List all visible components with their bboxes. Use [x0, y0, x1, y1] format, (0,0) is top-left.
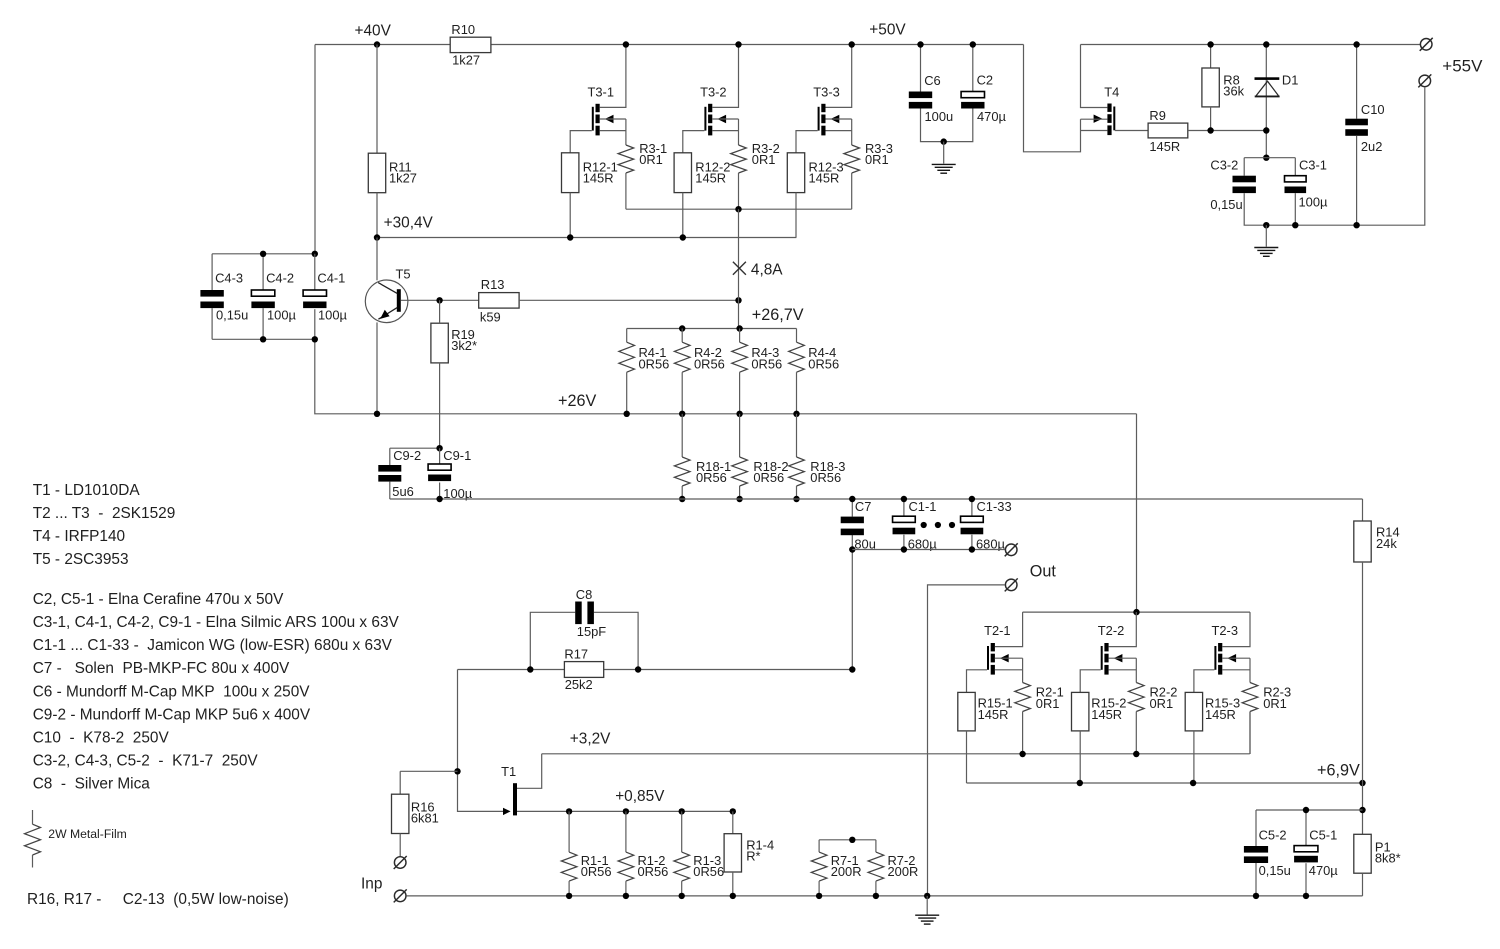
- svg-text:+0,85V: +0,85V: [615, 788, 665, 805]
- wire R18-1 bottom: [681, 486, 683, 499]
- wire T2 drain rail: [1023, 611, 1250, 613]
- node R15-2 bottom: [1077, 780, 1083, 786]
- node D1 top: [1263, 41, 1269, 47]
- legend text: C2, C5-1 - Elna Cerafine 4: [33, 591, 284, 608]
- resistor R15-2: [1072, 692, 1089, 731]
- wire T4 gate to R9: [1115, 130, 1148, 132]
- node C1-33 top: [969, 496, 975, 502]
- wire T1 source rail: [517, 810, 733, 812]
- node output ground junction: [924, 893, 930, 899]
- label C4-2 value 100µ: [267, 308, 297, 323]
- resistor R1-3: [674, 852, 690, 881]
- label R4-4 0R56: [808, 345, 839, 371]
- voltage label +40V: [355, 22, 392, 39]
- svg-text:R10: R10: [451, 22, 475, 37]
- node R17 rail junction: [849, 666, 855, 672]
- label C2: [977, 73, 993, 88]
- node T3-1 drain on rail: [623, 41, 629, 47]
- resistor R15-1: [958, 692, 975, 731]
- svg-text:5u6: 5u6: [392, 484, 414, 499]
- wire C3 top rail: [1244, 158, 1295, 176]
- svg-text:100µ: 100µ: [318, 308, 348, 323]
- node R4-4 bottom on +26V rail: [793, 411, 799, 417]
- label R2-3 0R1: [1263, 685, 1291, 711]
- voltage label +26,7V: [752, 306, 804, 324]
- svg-text:200R: 200R: [888, 864, 919, 879]
- label C4-1 value 100µ: [318, 308, 348, 323]
- label R4-2 0R56: [694, 345, 725, 371]
- svg-text:+55V: +55V: [1442, 56, 1483, 75]
- wire R18-3 bottom: [796, 486, 798, 499]
- terminal input upper: [394, 856, 407, 869]
- resistor R17: [564, 662, 603, 678]
- capacitor C2: [961, 92, 984, 109]
- wire R4-2 bottom: [681, 372, 683, 414]
- svg-text:C9-2 - Mundorff M-Cap MKP 5u6: C9-2 - Mundorff M-Cap MKP 5u6 x 400V: [33, 707, 311, 724]
- svg-text:Inp: Inp: [361, 875, 382, 892]
- wire R16 bottom: [399, 834, 401, 857]
- transistor T4: [1094, 104, 1116, 136]
- svg-text:C2: C2: [977, 73, 993, 88]
- wire R2-2 bottom: [1135, 712, 1137, 755]
- label T1: [501, 764, 516, 779]
- wire R18-3 top: [796, 414, 798, 457]
- wire T2-2 source stubs: [1109, 658, 1137, 682]
- label T3-1: [588, 84, 615, 99]
- wire T3 source rail: [626, 208, 852, 210]
- svg-text:C5-1: C5-1: [1309, 828, 1337, 843]
- transistor T3-3: [818, 104, 840, 136]
- svg-text:0R56: 0R56: [753, 470, 784, 485]
- svg-text:C7: C7: [855, 499, 871, 514]
- legend text: R16, R17 note: [27, 891, 289, 908]
- label C3-2 value 0,15u: [1210, 197, 1242, 212]
- wire R4-3 bottom: [739, 372, 741, 414]
- svg-text:T3-2: T3-2: [700, 84, 727, 99]
- wire long mid rail: [390, 498, 1363, 500]
- svg-text:0R56: 0R56: [696, 470, 727, 485]
- svg-text:+26,7V: +26,7V: [752, 306, 804, 324]
- node C5/P1 top junction: [1359, 807, 1365, 813]
- legend text: T4 - IRFP140: [33, 528, 125, 545]
- svg-text:T1: T1: [501, 764, 516, 779]
- label C3-2: [1210, 157, 1238, 172]
- wire T2-2 gate: [1080, 670, 1101, 693]
- label R7-1 200R: [831, 853, 862, 879]
- capacitor C7: [841, 517, 864, 536]
- label R15-1 145R: [978, 696, 1013, 722]
- wire P1 bottom: [1362, 873, 1364, 896]
- svg-text:C1-1 ... C1-33 - Jamicon WG (: C1-1 ... C1-33 - Jamicon WG (low-ESR) 68…: [33, 637, 393, 654]
- wire R18-2 bottom: [739, 486, 741, 499]
- label R4-1 0R56: [639, 345, 670, 371]
- wire T4 drain: [1081, 45, 1108, 108]
- label R13 value k59: [480, 310, 501, 325]
- wire R3-1 bottom: [625, 173, 627, 209]
- svg-text:36k: 36k: [1223, 84, 1244, 99]
- wire +50V feed step: [1024, 45, 1081, 152]
- node R1-1 bottom: [566, 893, 572, 899]
- wire R12-2 bottom: [682, 193, 684, 238]
- wire left vertical +40V branch: [314, 45, 316, 340]
- wire R13 to 4,8A vertical: [519, 299, 738, 301]
- svg-text:6k81: 6k81: [411, 811, 439, 826]
- node R8 top: [1207, 41, 1213, 47]
- svg-text:0R1: 0R1: [1263, 696, 1287, 711]
- wire R4-3 top: [739, 329, 741, 343]
- wire T3-2 source stubs: [712, 119, 738, 145]
- node R4-3 bottom on +26V rail: [736, 411, 742, 417]
- node C9-1 top junction: [436, 445, 442, 451]
- label R10 value 1k27: [452, 53, 480, 68]
- wire R1-3 bottom: [681, 881, 683, 896]
- label C1-1 value 680µ: [908, 536, 938, 551]
- wire R7 top bracket: [819, 840, 876, 852]
- node T3-2 source rail: [735, 206, 741, 212]
- label R1-4 R*: [746, 838, 774, 864]
- label C7: [855, 499, 871, 514]
- wire R7-1 bottom: [818, 881, 820, 896]
- capacitor C4-1: [303, 290, 326, 308]
- svg-text:8k8*: 8k8*: [1375, 851, 1401, 866]
- svg-text:C7 - Solen PB-MKP-FC 80u x: C7 - Solen PB-MKP-FC 80u x 400V: [33, 660, 290, 677]
- node R13 junction: [735, 297, 741, 303]
- svg-text:145R: 145R: [1149, 139, 1180, 154]
- label R15-2 145R: [1091, 696, 1126, 722]
- capacitor C4-2: [251, 290, 274, 308]
- label C4-1: [317, 271, 345, 286]
- svg-text:0R56: 0R56: [638, 864, 669, 879]
- wire R3-3 bottom: [851, 173, 853, 209]
- svg-text:+3,2V: +3,2V: [570, 730, 611, 747]
- node C2 top: [970, 41, 976, 47]
- node R19 top junction: [436, 297, 442, 303]
- label R7-2 200R: [888, 853, 919, 879]
- label C9-1: [443, 448, 471, 463]
- svg-text:R16, R17 - C2-13 (0,5W lo: R16, R17 - C2-13 (0,5W low-noise): [27, 891, 289, 908]
- svg-text:T2-1: T2-1: [984, 623, 1011, 638]
- svg-text:C1-33: C1-33: [977, 499, 1012, 514]
- label R19 3k2*: [451, 327, 477, 353]
- label C9-1 value 100µ: [443, 486, 473, 501]
- svg-text:470µ: 470µ: [977, 109, 1007, 124]
- capacitor C6: [909, 92, 932, 109]
- svg-text:2u2: 2u2: [1361, 139, 1383, 154]
- label T2-2: [1098, 623, 1125, 638]
- wire R11 bottom: [376, 193, 378, 238]
- node T5 emitter on +26V rail: [374, 411, 380, 417]
- capacitor C5-2: [1244, 846, 1268, 863]
- svg-text:D1: D1: [1282, 72, 1298, 87]
- ground below input rail: [915, 896, 939, 924]
- wire T2-3 drain: [1222, 612, 1250, 647]
- resistor R15-3: [1185, 692, 1202, 731]
- wire T5 emitter: [376, 322, 378, 413]
- transistor T2-1: [987, 643, 1009, 675]
- svg-text:0R1: 0R1: [639, 152, 663, 167]
- node C7 top: [849, 496, 855, 502]
- label C1-1: [909, 499, 937, 514]
- resistor R4-4: [789, 342, 805, 372]
- wire R7-2 bottom: [875, 881, 877, 896]
- wire R4-1 bottom: [626, 372, 628, 414]
- svg-text:0R56: 0R56: [581, 864, 612, 879]
- resistor R12-1: [562, 153, 579, 193]
- svg-text:T2 ... T3 - 2SK1529: T2 ... T3 - 2SK1529: [33, 505, 176, 522]
- node C8 right: [635, 666, 641, 672]
- label C9-2: [393, 448, 421, 463]
- wire R3-2 bottom: [738, 173, 740, 209]
- label R10: [451, 22, 475, 37]
- label T3-3: [813, 84, 840, 99]
- label R15-3 145R: [1205, 696, 1240, 722]
- label C9-2 value 5u6: [392, 484, 414, 499]
- svg-text:C9-1: C9-1: [443, 448, 471, 463]
- node C1-1 top: [901, 496, 907, 502]
- svg-text:2W Metal-Film: 2W Metal-Film: [48, 827, 127, 841]
- resistor R2-3: [1242, 683, 1258, 712]
- wire input ground rail: [406, 895, 1362, 897]
- wire R2-3 bottom: [1249, 712, 1251, 755]
- svg-text:1k27: 1k27: [452, 53, 480, 68]
- wire C3 bottom rail: [1244, 87, 1425, 225]
- wire C9 top bracket: [390, 448, 440, 465]
- node C5-1 top: [1303, 807, 1309, 813]
- resistor R1-4: [724, 834, 741, 872]
- svg-text:R9: R9: [1149, 108, 1165, 123]
- svg-text:145R: 145R: [695, 171, 726, 186]
- resistor R7-2: [868, 852, 884, 881]
- terminal +55V upper: [1420, 38, 1433, 51]
- resistor R14: [1354, 521, 1371, 562]
- wire Out return: [928, 585, 1005, 896]
- voltage label +3,2V: [570, 730, 611, 747]
- label T5: [396, 266, 411, 281]
- node D1 anode junction: [1263, 127, 1269, 133]
- svg-text:T1 - LD1010DA: T1 - LD1010DA: [33, 482, 141, 499]
- svg-text:145R: 145R: [583, 171, 614, 186]
- wire R19 top: [439, 300, 441, 323]
- node R1-1 top: [566, 808, 572, 814]
- label R2-2 0R1: [1150, 685, 1178, 711]
- label R12-2 145R: [695, 159, 730, 185]
- svg-text:C3-2: C3-2: [1210, 157, 1238, 172]
- label C5-2 value 0,15u: [1259, 863, 1291, 878]
- label P1 8k8*: [1375, 840, 1401, 866]
- svg-text:145R: 145R: [1091, 707, 1122, 722]
- node C9-1 bottom junction: [436, 496, 442, 502]
- capacitor C9-1: [428, 464, 451, 481]
- svg-text:R*: R*: [746, 849, 760, 864]
- label R13: [481, 277, 505, 292]
- svg-text:+40V: +40V: [355, 22, 392, 39]
- wire R15-2 bottom: [1079, 731, 1081, 783]
- node C4-1 bottom: [312, 336, 318, 342]
- resistor R18-2: [732, 457, 748, 486]
- wire C6 top: [920, 45, 922, 92]
- svg-text:+6,9V: +6,9V: [1317, 761, 1360, 779]
- resistor R12-3: [787, 153, 804, 193]
- terminal Out plus: [1005, 543, 1018, 556]
- resistor R7-1: [811, 852, 827, 881]
- node R1-2 bottom: [623, 893, 629, 899]
- node C5-2 bottom: [1253, 893, 1259, 899]
- wire T3-3 gate: [796, 131, 818, 153]
- node T2 drain rail junction: [1133, 609, 1139, 615]
- ground below C6/C2: [932, 142, 956, 174]
- svg-text:C6 - Mundorff M-Cap MKP 100u: C6 - Mundorff M-Cap MKP 100u x 250V: [33, 684, 311, 701]
- wire T2-3 source stubs: [1222, 658, 1250, 682]
- wire C7 vertical: [851, 499, 853, 670]
- svg-text:100µ: 100µ: [267, 308, 297, 323]
- wire R1-4 bottom: [732, 872, 734, 896]
- svg-text:3k2*: 3k2*: [451, 338, 477, 353]
- svg-text:0R56: 0R56: [810, 470, 841, 485]
- label R18-1 0R56: [696, 459, 731, 485]
- svg-text:470µ: 470µ: [1309, 863, 1339, 878]
- legend text: T1 - LD1010DA: [33, 482, 141, 499]
- node R15-3 bottom: [1190, 780, 1196, 786]
- svg-text:C9-2: C9-2: [393, 448, 421, 463]
- svg-text:0R1: 0R1: [752, 152, 776, 167]
- label R18-2 0R56: [753, 459, 788, 485]
- legend text: T2 ... T3 - 2SK1529: [33, 505, 176, 522]
- wire R15-3 bottom: [1193, 731, 1195, 783]
- label C1-33 value 680µ: [976, 536, 1006, 551]
- node C1-1 bottom: [901, 546, 907, 552]
- label T4: [1104, 85, 1119, 100]
- voltage label +55V: [1442, 56, 1483, 75]
- wire R12-1 bottom: [569, 193, 571, 238]
- svg-text:R13: R13: [481, 277, 505, 292]
- wire R8 bottom: [1210, 107, 1212, 131]
- wire T3-3 source stubs: [826, 119, 852, 145]
- resistor R4-2: [674, 342, 690, 372]
- label R14 24k: [1376, 525, 1400, 551]
- legend text: C10 - K78-2 250V: [33, 730, 170, 747]
- wire C5 top rail: [1256, 810, 1363, 846]
- node +6,9V right junction: [1359, 780, 1365, 786]
- resistor R3-2: [731, 145, 747, 173]
- svg-text:C6: C6: [924, 73, 940, 88]
- wire C6/C2 bottom rail: [921, 109, 973, 142]
- svg-text:0,15u: 0,15u: [1259, 863, 1291, 878]
- label T3-2: [700, 84, 727, 99]
- legend text: T5 - 2SC3953: [33, 551, 129, 568]
- svg-text:0R56: 0R56: [639, 356, 670, 371]
- label R9: [1149, 108, 1165, 123]
- wire +26V to T2 drains: [1136, 414, 1138, 612]
- legend text: C3-1, C4-1, C4-2, C9-1 - E: [33, 614, 400, 631]
- label R2-1 0R1: [1036, 685, 1064, 711]
- wire C10 top: [1356, 45, 1358, 119]
- capacitor C5-1: [1294, 846, 1318, 863]
- svg-text:0R56: 0R56: [694, 356, 725, 371]
- label R1-2 0R56: [638, 853, 669, 879]
- label Inp: [361, 875, 382, 892]
- svg-text:T5 - 2SC3953: T5 - 2SC3953: [33, 551, 129, 568]
- svg-text:200R: 200R: [831, 864, 862, 879]
- node C3-1 bottom: [1292, 222, 1298, 228]
- node R12-2 on +30,4V rail: [680, 234, 686, 240]
- wire T3-1 source stubs: [600, 119, 626, 145]
- svg-text:C8: C8: [576, 587, 592, 602]
- resistor R18-3: [789, 457, 805, 486]
- wire R19 bottom: [439, 363, 441, 448]
- resistor R1-2: [618, 852, 634, 881]
- node C10 top: [1353, 41, 1359, 47]
- wire R2-1 bottom: [1022, 712, 1024, 755]
- label C5-1: [1309, 828, 1337, 843]
- wire T4 source stubs: [1081, 119, 1108, 130]
- wire R18-1 top: [681, 414, 683, 457]
- svg-text:R17: R17: [564, 647, 588, 662]
- wire C9-1 bottom: [439, 483, 441, 500]
- svg-text:T5: T5: [396, 266, 411, 281]
- wire R14 top: [1362, 499, 1364, 521]
- node R4-3 top: [736, 325, 742, 331]
- label C3-1: [1299, 157, 1327, 172]
- node C8 left: [527, 666, 533, 672]
- svg-text:Out: Out: [1030, 563, 1057, 581]
- node R1-4 bottom: [730, 893, 736, 899]
- label C3-1 value 100µ: [1299, 195, 1329, 210]
- terminal +55V lower: [1418, 74, 1431, 87]
- wire C9-1 top stub: [439, 448, 441, 464]
- svg-text:k59: k59: [480, 310, 501, 325]
- transistor T2-2: [1101, 643, 1123, 675]
- label R8 36k: [1223, 72, 1244, 98]
- wire +26V rail: [315, 339, 1137, 414]
- label R9 value 145R: [1149, 139, 1180, 154]
- label C2 value 470µ: [977, 109, 1007, 124]
- capacitor C9-2: [378, 465, 401, 482]
- svg-text:T2-2: T2-2: [1098, 623, 1125, 638]
- wire T5 collector: [376, 238, 378, 281]
- wire T1 gate vertical: [458, 670, 504, 812]
- wire R14 bottom long: [1362, 562, 1364, 834]
- capacitor C3-1: [1285, 176, 1307, 193]
- wire C1-1 stubs: [903, 499, 905, 550]
- svg-text:C10 - K78-2 250V: C10 - K78-2 250V: [33, 730, 170, 747]
- label R11 1k27: [389, 159, 417, 185]
- label R1-1 0R56: [581, 853, 612, 879]
- resistor R18-1: [674, 457, 690, 486]
- label R16 6k81: [411, 799, 439, 825]
- terminal Out return: [1005, 578, 1018, 591]
- svg-text:4,8A: 4,8A: [751, 262, 783, 279]
- terminal input lower: [394, 889, 407, 902]
- transistor T2-3: [1214, 643, 1236, 675]
- label R18-3 0R56: [810, 459, 845, 485]
- svg-text:0,15u: 0,15u: [216, 308, 248, 323]
- wire R18-2 top: [739, 414, 741, 457]
- ground below C3: [1254, 225, 1278, 256]
- svg-text:0R56: 0R56: [808, 356, 839, 371]
- wire C10 bottom: [1356, 136, 1358, 225]
- svg-text:T2-3: T2-3: [1212, 623, 1239, 638]
- svg-text:T3-1: T3-1: [588, 84, 615, 99]
- wire T5 base line: [401, 299, 479, 301]
- label R1-3 0R56: [693, 853, 724, 879]
- resistor R2-2: [1129, 683, 1145, 712]
- wire C9-2 bottom: [389, 482, 391, 499]
- wire +3,2V rail: [542, 753, 1250, 755]
- label R17 value 25k2: [565, 677, 593, 692]
- legend text: C7 - Solen PB-MKP-FC 80: [33, 660, 290, 677]
- wire C2 top: [972, 45, 974, 92]
- node C4-1 top: [312, 251, 318, 257]
